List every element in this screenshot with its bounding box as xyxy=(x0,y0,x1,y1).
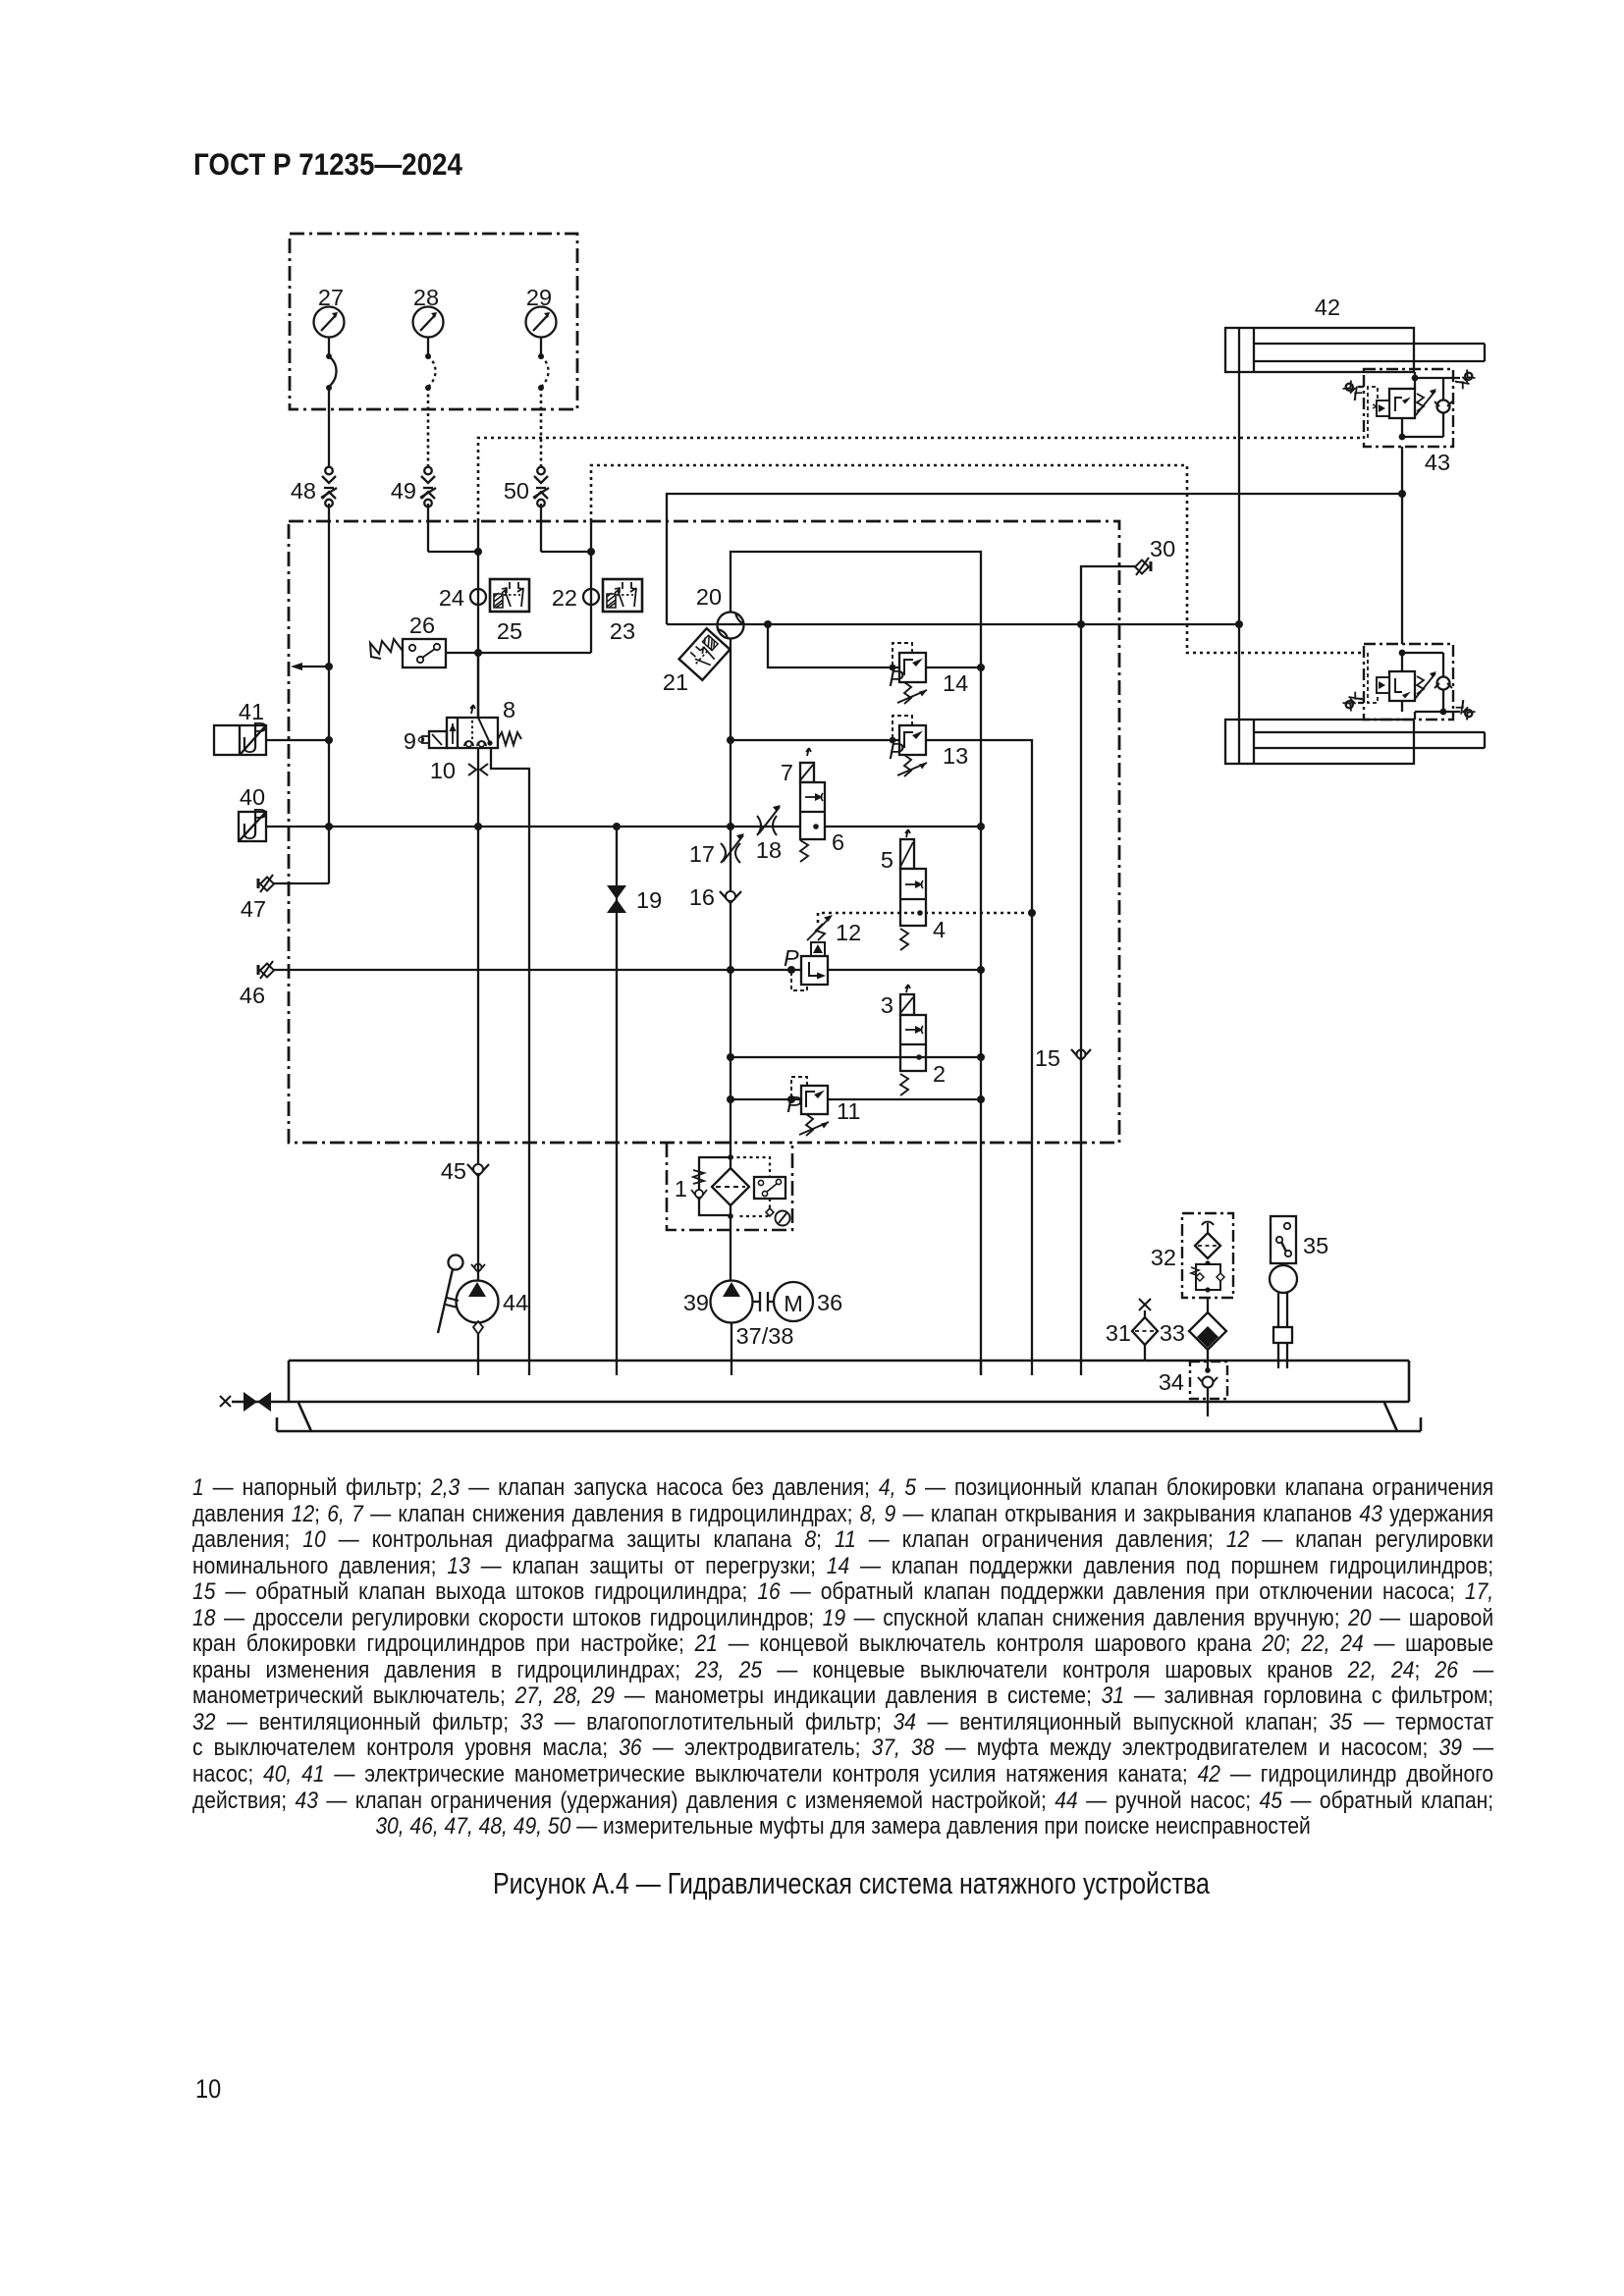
svg-text:30: 30 xyxy=(1150,536,1175,561)
valve 5/4 assembly xyxy=(900,829,926,950)
wire: valve 8 right outlet to tank line xyxy=(491,748,529,1375)
wire: valve 13 outlet to column xyxy=(926,740,1032,1375)
wire: coupling stub top left xyxy=(1358,386,1364,388)
svg-text:16: 16 xyxy=(689,884,715,910)
wire: valve 8 inlet xyxy=(477,653,479,718)
svg-text:43: 43 xyxy=(1425,450,1450,475)
hand pump 44 xyxy=(438,1175,499,1375)
wire: branch to valve 14 xyxy=(768,624,899,667)
svg-text:24: 24 xyxy=(439,585,464,611)
thermostat 35 xyxy=(1270,1216,1297,1368)
svg-text:23: 23 xyxy=(610,618,635,644)
valve 43 internals (bottom) xyxy=(1368,653,1452,720)
wire: valve 8 left outlet down xyxy=(477,748,479,1164)
check valve 16 xyxy=(720,891,741,903)
svg-text:39: 39 xyxy=(683,1290,709,1315)
wire: 50 connector to ball valve 22 line xyxy=(541,551,591,553)
valve 43 bottom-right coupling xyxy=(1455,700,1476,721)
pressure switch 26 xyxy=(370,639,446,667)
filter unit enclosure (dash-dot) xyxy=(667,1143,792,1230)
wire: 32 to 33 xyxy=(1207,1298,1209,1312)
svg-text:25: 25 xyxy=(497,618,522,644)
pressure valve 12 xyxy=(784,915,833,990)
svg-text:13: 13 xyxy=(943,743,968,769)
wire: columns into tank xyxy=(980,1361,982,1375)
limit switch 21 (rotated) xyxy=(679,628,731,680)
pressure valve 13 xyxy=(889,716,927,776)
coupling 30 xyxy=(1135,558,1151,575)
wire: 29 to coupling 50 (dotted) xyxy=(540,388,543,467)
svg-text:P: P xyxy=(786,1092,802,1117)
pilot line from ball valve 24 node to valve 43 (dotted) xyxy=(478,438,1364,521)
svg-text:1: 1 xyxy=(675,1176,687,1201)
pressure transducer 40 xyxy=(239,804,268,844)
tank xyxy=(232,1361,1421,1431)
inner manifold frame top xyxy=(731,552,981,1375)
breather 32 valve block xyxy=(1191,1260,1224,1292)
wire: coupling 50 down xyxy=(540,504,542,552)
wire: rod-side column between valves 43 xyxy=(1401,447,1403,644)
svg-text:49: 49 xyxy=(391,478,416,504)
wire: pump suction xyxy=(731,1323,732,1375)
wire: cylinder port into valve 43 xyxy=(1414,372,1416,378)
svg-text:M: M xyxy=(784,1291,803,1316)
pilot 9 of valve 8 xyxy=(419,731,448,748)
svg-text:11: 11 xyxy=(837,1098,860,1124)
moisture filter 33 xyxy=(1189,1312,1226,1350)
svg-text:19: 19 xyxy=(636,887,662,913)
vent valve 34 xyxy=(1198,1367,1218,1416)
svg-text:42: 42 xyxy=(1315,294,1340,320)
wire: valve 14 outlet xyxy=(926,667,981,668)
drain valve 19 xyxy=(607,885,626,913)
svg-text:18: 18 xyxy=(756,837,782,863)
hose symbol below gauge 27 xyxy=(326,353,337,391)
breather filter 32 enclosure xyxy=(1182,1213,1233,1298)
wire: valve 11 outlet xyxy=(828,1098,981,1100)
wire: pump riser to filter xyxy=(728,1154,733,1160)
cylinder 42 rod xyxy=(1254,344,1485,361)
filter 1 bypass branch xyxy=(691,1157,731,1215)
wire: 33 to 34 xyxy=(1207,1350,1209,1370)
counterbalance valve 43 enclosure (top) xyxy=(1364,369,1453,447)
valve 8 (2/2 directional) xyxy=(447,705,498,748)
tank drain shut-off valve xyxy=(220,1392,271,1412)
svg-text:9: 9 xyxy=(404,728,416,754)
limit switch 25 xyxy=(490,579,529,612)
gauge 27 xyxy=(314,307,345,338)
valve 3/2 assembly xyxy=(900,985,926,1095)
coupling 49 xyxy=(420,467,436,507)
wire: gauge 29 stem xyxy=(540,338,542,356)
wire: 49 connector to ball valve 24 line xyxy=(428,551,478,553)
wire: branch to valve 11 xyxy=(731,1098,801,1100)
wire: coupling 49 down xyxy=(427,504,429,552)
svg-text:22: 22 xyxy=(552,585,577,611)
valve 43 top-right coupling xyxy=(1455,369,1476,390)
wire: ball valve 24 branch xyxy=(477,521,479,718)
wire: 46 to valve 12 line xyxy=(273,969,801,971)
svg-text:31: 31 xyxy=(1106,1320,1131,1346)
wire: rod-return line through valve 2 xyxy=(731,1056,981,1058)
top gauge enclosure (dash-dot box) xyxy=(290,234,577,409)
vent valve 34 enclosure xyxy=(1190,1362,1227,1399)
check valve 45 xyxy=(467,1164,489,1176)
wire: coupling stub bottom right xyxy=(1443,711,1460,713)
motor 36 xyxy=(774,1282,813,1321)
wire: arrow to enclosure edge xyxy=(294,666,329,667)
svg-text:8: 8 xyxy=(503,697,515,722)
svg-text:26: 26 xyxy=(409,613,435,638)
valve 43 top-left coupling xyxy=(1342,380,1363,400)
filter 1 xyxy=(712,1168,749,1205)
limit switch 23 xyxy=(603,579,642,612)
svg-text:12: 12 xyxy=(836,920,861,945)
hose symbol below gauge 28 (dotted) xyxy=(425,353,436,391)
wire: drain valve 19 column xyxy=(616,827,618,1375)
ball valve 22 xyxy=(583,589,599,605)
svg-text:50: 50 xyxy=(504,478,529,504)
pump 39 xyxy=(711,1281,753,1323)
wire: gauge 28 stem xyxy=(427,338,429,356)
svg-text:21: 21 xyxy=(663,669,688,695)
hose symbol below gauge 29 (dotted) xyxy=(538,353,549,391)
wire: valve 12 outlet xyxy=(828,969,981,971)
throttle 17 xyxy=(721,833,744,863)
svg-text:U: U xyxy=(242,732,258,758)
wire: coupling stub top right xyxy=(1443,377,1460,379)
svg-text:U: U xyxy=(242,819,258,844)
wire: 28 to coupling 49 (dotted) xyxy=(427,388,430,467)
coupling 47 xyxy=(258,875,274,892)
svg-text:5: 5 xyxy=(881,847,893,873)
cylinder 42 body xyxy=(1225,328,1414,372)
wire: 26 to ball valves line xyxy=(446,652,591,654)
supply line to rod-side (upper) xyxy=(667,494,1402,624)
ball valve 20 xyxy=(718,613,744,639)
svg-text:15: 15 xyxy=(1035,1045,1060,1071)
svg-text:47: 47 xyxy=(241,896,266,922)
svg-text:6: 6 xyxy=(832,829,844,855)
lower cylinder rod xyxy=(1254,732,1485,748)
wire: piston side to both cylinders xyxy=(1238,372,1240,720)
svg-text:20: 20 xyxy=(696,584,722,610)
wire: coupling stub bottom left xyxy=(1358,702,1364,704)
svg-text:4: 4 xyxy=(933,917,946,942)
svg-text:45: 45 xyxy=(441,1158,466,1184)
check valve 15 xyxy=(1071,1049,1091,1060)
wire: 40 to main pressure line xyxy=(266,826,981,828)
counterbalance valve 43 enclosure (bottom) xyxy=(1364,644,1453,720)
svg-text:44: 44 xyxy=(503,1290,528,1315)
breather 32 filter diamond xyxy=(1195,1233,1220,1258)
svg-text:32: 32 xyxy=(1151,1245,1176,1270)
gauge 28 xyxy=(413,307,444,338)
wire: ball valve 22 branch xyxy=(590,521,592,653)
svg-text:2: 2 xyxy=(933,1061,946,1087)
pressure transducer 41 xyxy=(214,718,268,758)
svg-text:14: 14 xyxy=(943,670,968,696)
wire: gauge 27 stem xyxy=(328,338,330,356)
svg-text:7: 7 xyxy=(781,760,793,785)
wire: 41 to node xyxy=(266,739,329,741)
coupling 37/38 xyxy=(753,1292,774,1311)
wire: riser below ball valve 20 xyxy=(730,638,731,1281)
breather 32 vent arrow xyxy=(1202,1222,1214,1235)
svg-text:37/38: 37/38 xyxy=(736,1323,794,1349)
pressure valve 11 xyxy=(786,1077,829,1136)
coupling 48 xyxy=(321,467,337,507)
throttle 18 xyxy=(757,805,781,835)
svg-text:3: 3 xyxy=(881,992,893,1018)
filler filter 31 xyxy=(1132,1299,1158,1362)
svg-text:10: 10 xyxy=(430,758,456,783)
svg-text:17: 17 xyxy=(689,841,715,867)
lower cylinder body xyxy=(1225,720,1414,764)
pressure valve 14 xyxy=(889,643,927,704)
ball valve 24 xyxy=(470,589,486,605)
svg-text:36: 36 xyxy=(817,1290,842,1315)
diaphragm 10 symbol xyxy=(468,764,488,775)
wire: column to coupling 30 xyxy=(1081,566,1135,1375)
gauge 29 xyxy=(526,307,557,338)
spring of valve 8 xyxy=(498,732,521,745)
main manifold enclosure (dash-dot box) xyxy=(289,521,1119,1143)
svg-text:34: 34 xyxy=(1159,1369,1184,1395)
wire: branch to valve 13 xyxy=(731,739,899,741)
filter 1 clogging switch (dotted links) xyxy=(731,1157,790,1226)
svg-text:48: 48 xyxy=(291,478,316,504)
pilot line of valves 4/12 (dotted) xyxy=(818,913,1032,923)
arrow head at enclosure xyxy=(291,663,302,670)
wire: coupling 48 down to node line xyxy=(328,504,330,883)
valve 43 bottom-left coupling xyxy=(1342,691,1363,712)
valve 7/6 assembly xyxy=(800,748,825,862)
piston-side supply line xyxy=(667,623,1239,625)
wire: 27 to coupling 48 xyxy=(328,388,330,467)
coupling 46 xyxy=(258,961,274,979)
valve 43 internals (top) xyxy=(1368,378,1452,438)
coupling 50 xyxy=(533,467,549,507)
svg-text:46: 46 xyxy=(240,983,265,1008)
pilot line from ball valve 22 node to lower valve 43 (dotted) xyxy=(591,465,1364,653)
svg-text:35: 35 xyxy=(1303,1233,1328,1258)
wire: 47 to node column xyxy=(273,882,329,884)
svg-text:33: 33 xyxy=(1160,1320,1185,1346)
